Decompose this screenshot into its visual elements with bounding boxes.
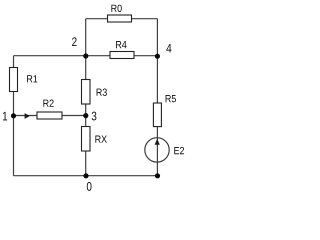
junction right rail bottom	[155, 173, 160, 178]
node 1	[3, 112, 16, 121]
resistor R2	[37, 100, 62, 119]
resistor R1	[10, 68, 38, 92]
node 4	[155, 44, 172, 59]
node 0	[83, 173, 91, 191]
wire left rail	[13, 56, 15, 176]
wire bottom rail through node 0	[14, 175, 158, 177]
resistor RX	[82, 127, 107, 152]
resistor R4	[110, 41, 134, 58]
node 3	[83, 112, 96, 121]
wire right rail	[156, 19, 158, 176]
resistor R5	[153, 95, 176, 127]
node 2	[72, 37, 88, 58]
wire row 2 from left rail to node 4	[14, 55, 158, 57]
wire middle rail	[85, 19, 87, 176]
wire top rail from node 2 column to node 4 column	[86, 18, 158, 20]
resistor R0	[108, 5, 132, 22]
current arrow toward R2	[25, 113, 30, 119]
source E2	[145, 138, 184, 162]
wire row 3 from node 1 to node 3	[14, 115, 86, 117]
resistor R3	[82, 80, 107, 105]
